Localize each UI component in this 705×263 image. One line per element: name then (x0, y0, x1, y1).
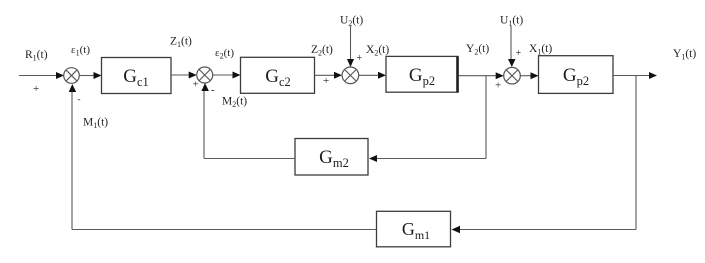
block Gm1 (377, 211, 451, 247)
wire S2 to Gc2 (213, 72, 241, 79)
wire feedback tap Y1 down (635, 76, 637, 230)
summer S3 (342, 67, 359, 84)
block Gp2a (386, 56, 458, 92)
svg-text:+: + (323, 75, 329, 87)
svg-text:ε2(t): ε2(t) (215, 47, 234, 61)
svg-text:U1(t): U1(t) (500, 15, 523, 29)
svg-text:Z2(t): Z2(t) (311, 44, 333, 58)
svg-text:ε1(t): ε1(t) (71, 44, 90, 58)
svg-text:U2(t): U2(t) (340, 15, 363, 29)
wire Gc2 to S3 (315, 72, 343, 79)
wire Gm2 output left segment (204, 158, 295, 160)
svg-text:+: + (357, 53, 363, 64)
block Gc2 (241, 57, 315, 93)
svg-text:+: + (516, 48, 522, 59)
wire feedback tap Y2 down (485, 76, 487, 159)
wire feedback bottom right segment into Gm1 (452, 226, 637, 233)
wire S1 to Gc1 (79, 72, 101, 79)
wire U2 into S3 (347, 26, 354, 68)
block Gp2b (539, 56, 614, 94)
svg-text:M2(t): M2(t) (222, 96, 247, 110)
svg-text:M1(t): M1(t) (83, 117, 108, 131)
svg-text:Y1(t): Y1(t) (673, 48, 696, 62)
summer S1 (64, 68, 80, 84)
block Gm2 (295, 139, 368, 176)
wire output Y1 (613, 72, 657, 79)
summer S2 (197, 67, 213, 83)
wire S4 to Gp2b (520, 72, 538, 79)
svg-text:X1(t): X1(t) (529, 43, 552, 57)
svg-text:X2(t): X2(t) (366, 44, 389, 58)
block Gc1 (102, 58, 172, 94)
svg-text:+: + (33, 83, 39, 95)
wire Gm1 output bottom left segment (72, 229, 377, 231)
svg-text:-: - (211, 84, 215, 96)
svg-text:+: + (495, 80, 501, 92)
svg-text:Y2(t): Y2(t) (466, 43, 489, 57)
wire feedback right segment into Gm2 (369, 155, 486, 162)
wire U1 into S4 (508, 26, 516, 68)
svg-text:+: + (193, 79, 199, 91)
wire Gp2a to S4 (459, 72, 504, 79)
wire input R1 (19, 72, 64, 79)
svg-text:-: - (78, 94, 81, 104)
wire Gc1 to S2 (171, 72, 197, 79)
wire S3 to Gp2a (359, 72, 386, 79)
svg-text:Z1(t): Z1(t) (170, 36, 192, 50)
svg-text:R1(t): R1(t) (25, 49, 48, 63)
summer S4 (504, 67, 521, 84)
wire M1 feedback up into S1 (69, 84, 77, 230)
wire M2 feedback up into S2 (201, 83, 209, 159)
